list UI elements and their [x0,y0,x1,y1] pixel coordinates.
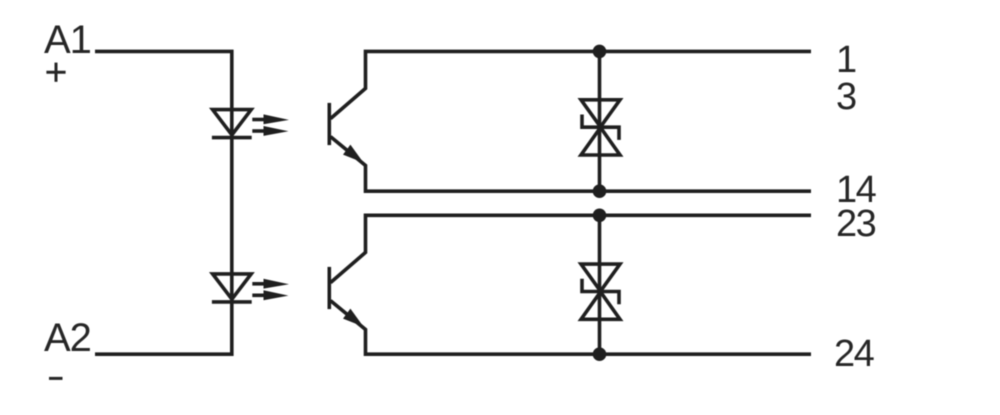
svg-text:A2: A2 [44,316,91,360]
svg-text:1: 1 [836,39,857,81]
svg-text:3: 3 [836,76,857,118]
svg-text:23: 23 [836,203,876,245]
svg-text:24: 24 [834,333,875,375]
svg-text:A1: A1 [44,18,91,62]
